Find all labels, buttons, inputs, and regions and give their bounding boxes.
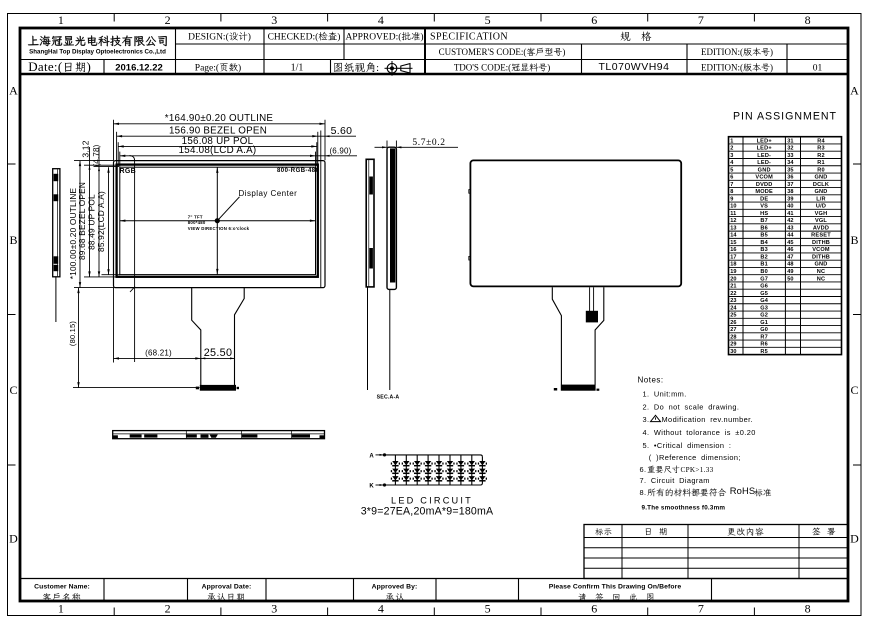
svg-text:3*9=27EA,20mA*9=180mA: 3*9=27EA,20mA*9=180mA <box>361 506 494 518</box>
svg-text:CHECKED:(: CHECKED:( <box>268 32 319 43</box>
svg-text:5. •Critical dimension :: 5. •Critical dimension : <box>643 441 732 450</box>
svg-text:48: 48 <box>787 262 793 268</box>
section A-A strip <box>387 147 396 289</box>
svg-text:11: 11 <box>730 211 736 217</box>
front FPC tail right edge <box>235 288 245 386</box>
svg-text:3.: 3. <box>643 415 650 424</box>
svg-text:LED+: LED+ <box>757 146 773 152</box>
LED string branch 5 wire <box>438 455 440 485</box>
svg-text:6: 6 <box>591 602 597 616</box>
svg-text:38: 38 <box>787 189 793 195</box>
svg-text:Approval Date:: Approval Date: <box>202 583 252 590</box>
svg-text:VGL: VGL <box>815 218 827 224</box>
svg-text:88.49 UP POL: 88.49 UP POL <box>87 194 97 250</box>
svg-text:): ) <box>86 59 90 74</box>
svg-text:(4.78): (4.78) <box>92 144 101 166</box>
svg-text:EDITION:(: EDITION:( <box>701 63 743 73</box>
svg-text:37: 37 <box>787 182 793 188</box>
front FPC tail left edge <box>192 288 201 386</box>
dimension 25.50 <box>201 357 235 359</box>
LED D11 <box>392 461 398 465</box>
rear FPC component <box>586 311 598 323</box>
svg-text:6: 6 <box>591 13 597 27</box>
LED D93 <box>479 476 485 480</box>
svg-text:): ) <box>337 32 340 43</box>
svg-text:01: 01 <box>813 64 823 74</box>
svg-text:47: 47 <box>787 254 793 260</box>
svg-text:(80.15): (80.15) <box>68 321 77 346</box>
dimension 5.7 <box>375 146 388 148</box>
svg-text:C: C <box>850 383 858 397</box>
svg-text:A: A <box>369 453 374 459</box>
svg-text:LED-: LED- <box>757 153 771 159</box>
svg-text:35: 35 <box>787 167 793 173</box>
LED D43 <box>425 476 431 480</box>
svg-text:8.: 8. <box>640 488 647 497</box>
svg-text:G0: G0 <box>760 327 768 333</box>
LED D22 <box>403 469 409 473</box>
svg-text:): ) <box>547 63 550 73</box>
svg-text:20: 20 <box>730 276 736 282</box>
right side view inner line <box>368 160 370 286</box>
section A-A centerline <box>389 289 391 390</box>
svg-text:4: 4 <box>378 602 384 616</box>
svg-text:): ) <box>770 63 773 73</box>
LED D92 <box>479 469 485 473</box>
svg-text:154.08(LCD A.A): 154.08(LCD A.A) <box>179 145 257 156</box>
svg-text:(6.90): (6.90) <box>329 146 351 155</box>
svg-text:40: 40 <box>787 204 793 210</box>
svg-text:5: 5 <box>485 13 491 27</box>
svg-text:16: 16 <box>730 247 736 253</box>
dimension 154.08 LCD A.A <box>120 155 316 157</box>
svg-text:DITHB: DITHB <box>812 240 830 246</box>
svg-text:85.92(LCD A.A): 85.92(LCD A.A) <box>96 191 106 252</box>
dimension (4.78) vertical <box>92 144 101 166</box>
rear view body <box>470 160 681 286</box>
projection angle symbol <box>387 64 397 74</box>
svg-text:5: 5 <box>485 602 491 616</box>
dimension 164.90 OUTLINE <box>114 123 326 125</box>
dimension 156.08 UP POL <box>118 145 317 147</box>
svg-text:DCLK: DCLK <box>813 182 829 188</box>
svg-text:(68.21): (68.21) <box>145 348 172 357</box>
svg-text:DITHB: DITHB <box>812 254 830 260</box>
svg-text:): ) <box>770 47 773 57</box>
svg-text:1: 1 <box>730 138 733 144</box>
svg-text:44: 44 <box>787 233 794 239</box>
LED D51 <box>436 461 442 465</box>
LED D91 <box>479 461 485 465</box>
svg-text:2: 2 <box>165 602 171 616</box>
bottom view ticks <box>185 431 187 439</box>
svg-text:31: 31 <box>787 138 793 144</box>
rear FPC right edge <box>595 287 604 385</box>
svg-text:B5: B5 <box>760 233 768 239</box>
svg-text:G5: G5 <box>760 291 768 297</box>
LED D23 <box>403 476 409 480</box>
cathode arrow <box>376 484 384 486</box>
svg-text:B2: B2 <box>760 254 768 260</box>
svg-text:CPK>1.33: CPK>1.33 <box>681 466 714 474</box>
left side view fpc line <box>55 277 57 322</box>
svg-text:): ) <box>562 47 565 57</box>
svg-text:SEC.A-A: SEC.A-A <box>377 395 400 401</box>
svg-text:26: 26 <box>730 320 736 326</box>
svg-text:G1: G1 <box>760 320 768 326</box>
svg-text:Notes:: Notes: <box>638 376 664 385</box>
rear view left notches <box>469 190 471 194</box>
display center leader <box>218 197 239 220</box>
dimension (80.15) vertical <box>78 288 80 388</box>
svg-text:VCOM: VCOM <box>812 247 830 253</box>
svg-text::: : <box>376 63 379 74</box>
svg-text:GND: GND <box>814 189 827 195</box>
svg-text:41: 41 <box>787 211 793 217</box>
rear FPC left edge <box>552 287 561 385</box>
display center dot <box>215 218 220 223</box>
svg-text:B7: B7 <box>760 218 768 224</box>
LED D62 <box>447 469 453 473</box>
svg-text:R1: R1 <box>817 160 825 166</box>
LED D71 <box>458 461 464 465</box>
svg-text:50: 50 <box>787 276 793 282</box>
extension lines above panel <box>113 120 115 160</box>
LED string branch 1 wire <box>394 455 396 485</box>
cathode terminal dot <box>383 483 386 486</box>
svg-text:GND: GND <box>814 175 827 181</box>
svg-text:RGB: RGB <box>120 168 136 175</box>
svg-text:G4: G4 <box>760 298 769 304</box>
svg-text:L/R: L/R <box>816 196 826 202</box>
svg-text:Please Confirm This Drawing On: Please Confirm This Drawing On/Before <box>549 583 682 590</box>
svg-text:43: 43 <box>787 225 793 231</box>
vertical centerline with arrows <box>216 167 218 274</box>
svg-text:3: 3 <box>730 153 733 159</box>
svg-text:GND: GND <box>758 167 771 173</box>
svg-text:89.68 BEZEL OPEN: 89.68 BEZEL OPEN <box>77 182 87 260</box>
svg-text:36: 36 <box>787 175 793 181</box>
svg-text:3: 3 <box>271 13 277 27</box>
svg-text:6: 6 <box>730 175 733 181</box>
LED D33 <box>414 476 420 480</box>
LED D32 <box>414 469 420 473</box>
bottom strip top line <box>20 578 848 580</box>
pin table row lines <box>729 143 842 145</box>
svg-text:Approved By:: Approved By: <box>372 583 418 590</box>
svg-text:G6: G6 <box>760 284 768 290</box>
frame zone ticks <box>113 14 115 22</box>
svg-text:2: 2 <box>730 146 733 152</box>
svg-text:( )Reference dimension;: ( )Reference dimension; <box>649 453 741 462</box>
svg-text:4: 4 <box>378 13 384 27</box>
svg-text:34: 34 <box>787 160 794 166</box>
LED D42 <box>425 469 431 473</box>
section A-A fill <box>390 148 395 282</box>
svg-text:24: 24 <box>730 305 737 311</box>
svg-text:R2: R2 <box>817 153 825 159</box>
svg-text:7. Circuit Diagram: 7. Circuit Diagram <box>640 476 710 485</box>
svg-text:3.12: 3.12 <box>81 140 91 157</box>
svg-text:13: 13 <box>730 225 736 231</box>
dimension (68.21) <box>114 357 201 359</box>
bottom view components <box>113 435 118 438</box>
svg-text:B6: B6 <box>760 225 768 231</box>
svg-text:5.7±0.2: 5.7±0.2 <box>412 138 445 148</box>
connector bar end ticks <box>196 387 199 390</box>
svg-text:B0: B0 <box>760 269 768 275</box>
front FPC connector bar <box>200 385 236 391</box>
svg-text:ShangHai Top Display Optoelect: ShangHai Top Display Optoelectronics Co.… <box>29 49 166 56</box>
LED string branch 3 wire <box>416 455 418 485</box>
dimension 100.00 OUTLINE vertical <box>79 161 81 288</box>
svg-text:25.50: 25.50 <box>204 347 233 359</box>
svg-text:49: 49 <box>787 269 793 275</box>
LED D63 <box>447 476 453 480</box>
svg-text:MODE: MODE <box>755 189 773 195</box>
pin table column lines <box>742 137 744 355</box>
rear FPC connector bar <box>561 385 596 391</box>
svg-text:APPROVED:(: APPROVED:( <box>345 32 401 43</box>
svg-text:GND: GND <box>814 262 827 268</box>
dimension 3.12 vertical <box>81 140 91 157</box>
svg-text:LED CIRCUIT: LED CIRCUIT <box>391 496 473 506</box>
svg-text:33: 33 <box>787 153 793 159</box>
svg-text:14: 14 <box>730 233 737 239</box>
svg-text:29: 29 <box>730 342 736 348</box>
svg-text:B4: B4 <box>760 240 768 246</box>
svg-text:U/D: U/D <box>816 204 826 210</box>
title block grid <box>20 73 848 75</box>
svg-text:RESET: RESET <box>811 233 831 239</box>
svg-text:800*480: 800*480 <box>188 220 206 225</box>
svg-text:19: 19 <box>730 269 736 275</box>
svg-text:HS: HS <box>760 211 768 217</box>
svg-text:12: 12 <box>730 218 736 224</box>
LED D83 <box>469 476 475 480</box>
front view LCD active area rect <box>120 167 316 274</box>
right extra vertical line <box>320 131 322 288</box>
svg-text:5: 5 <box>730 167 733 173</box>
svg-text:15: 15 <box>730 240 736 246</box>
svg-text:7: 7 <box>698 602 704 616</box>
svg-text:32: 32 <box>787 146 793 152</box>
svg-text:): ) <box>420 32 423 43</box>
svg-text:DE: DE <box>760 196 768 202</box>
svg-text:23: 23 <box>730 298 736 304</box>
svg-text:DESIGN:(: DESIGN:( <box>188 32 229 43</box>
top rail wire <box>385 455 483 457</box>
svg-text:LED+: LED+ <box>757 138 773 144</box>
svg-text:R3: R3 <box>817 146 825 152</box>
LED string branch 4 wire <box>427 455 429 485</box>
horizontal centerline with arrows <box>120 220 316 222</box>
LED string branch 2 wire <box>405 455 407 485</box>
right side view body <box>366 159 374 287</box>
dimension (6.90) <box>316 155 358 157</box>
LED D61 <box>447 461 453 465</box>
svg-text:4. Without tolorance is ±0.20: 4. Without tolorance is ±0.20 <box>643 428 756 437</box>
LED D73 <box>458 476 464 480</box>
front view bezel open rect (thick) <box>117 165 318 277</box>
svg-text:9.The smoothness f0.3mm: 9.The smoothness f0.3mm <box>642 505 726 512</box>
bottom view inner line <box>113 433 324 435</box>
anode arrow <box>376 454 384 456</box>
svg-text:A: A <box>9 83 18 97</box>
svg-text:VS: VS <box>760 204 768 210</box>
svg-text:42: 42 <box>787 218 793 224</box>
svg-text:R0: R0 <box>817 167 825 173</box>
svg-text:C: C <box>9 383 17 397</box>
svg-text:B3: B3 <box>760 247 768 253</box>
dimension 156.90 BEZEL OPEN <box>117 135 318 137</box>
svg-text:TDO'S CODE:(: TDO'S CODE:( <box>454 63 511 73</box>
polarizer tab hook bottom <box>130 287 135 292</box>
svg-text:7" TFT: 7" TFT <box>188 215 203 220</box>
svg-text:VIEW DIRECTION 6:o'clock: VIEW DIRECTION 6:o'clock <box>188 226 250 231</box>
LED D82 <box>469 469 475 473</box>
svg-text:8: 8 <box>805 13 811 27</box>
LED D41 <box>425 461 431 465</box>
bottom rail wire <box>385 483 483 485</box>
svg-text:SPECIFICATION: SPECIFICATION <box>430 32 508 43</box>
svg-text:1: 1 <box>58 602 64 616</box>
company name chinese <box>28 36 39 45</box>
svg-text:D: D <box>850 532 859 546</box>
view angle label <box>334 63 342 72</box>
svg-text:1/1: 1/1 <box>291 63 304 74</box>
svg-text:PIN ASSIGNMENT: PIN ASSIGNMENT <box>733 111 837 123</box>
LED D81 <box>469 461 475 465</box>
svg-text:R7: R7 <box>760 334 768 340</box>
dimension 5.60 <box>318 135 356 137</box>
LED D12 <box>392 469 398 473</box>
LED D52 <box>436 469 442 473</box>
svg-text:800-RGB-480: 800-RGB-480 <box>277 168 320 174</box>
svg-text:B: B <box>850 233 858 247</box>
svg-text:R5: R5 <box>760 349 768 355</box>
svg-text:2016.12.22: 2016.12.22 <box>115 63 163 74</box>
rear connector end marks <box>554 388 557 391</box>
extension line panel left down <box>113 288 115 363</box>
svg-text:39: 39 <box>787 196 793 202</box>
svg-text:K: K <box>369 483 374 489</box>
svg-text:LED-: LED- <box>757 160 771 166</box>
svg-text:156.90 BEZEL OPEN: 156.90 BEZEL OPEN <box>169 125 267 136</box>
svg-text:Customer Name:: Customer Name: <box>34 583 90 590</box>
svg-text:VGH: VGH <box>815 211 828 217</box>
svg-text:5.60: 5.60 <box>331 125 353 137</box>
right side view fpc line <box>367 287 369 390</box>
revision header marks <box>595 528 603 535</box>
svg-text:*164.90±0.20 OUTLINE: *164.90±0.20 OUTLINE <box>165 113 274 124</box>
svg-text:46: 46 <box>787 247 793 253</box>
svg-text:7: 7 <box>730 182 733 188</box>
LED D53 <box>436 476 442 480</box>
left extension lines <box>74 160 114 162</box>
svg-text:AVDD: AVDD <box>813 225 829 231</box>
dimension 85.92 LCD A.A vertical <box>108 167 110 275</box>
svg-text:6.: 6. <box>640 465 647 474</box>
svg-text:17: 17 <box>730 254 736 260</box>
svg-text:NC: NC <box>817 276 825 282</box>
LED string branch 7 wire <box>460 455 462 485</box>
svg-text:22: 22 <box>730 291 736 297</box>
LED D31 <box>414 461 420 465</box>
svg-text:Display Center: Display Center <box>239 189 298 198</box>
svg-text:Modification rev.number.: Modification rev.number. <box>662 415 754 424</box>
svg-text:1: 1 <box>58 13 64 27</box>
svg-text:Page:(: Page:( <box>195 63 219 74</box>
svg-text:30: 30 <box>730 349 736 355</box>
svg-text:8: 8 <box>805 602 811 616</box>
right side view tape marks <box>369 177 373 195</box>
dimension 89.68 BEZEL OPEN vertical <box>89 147 91 277</box>
svg-text:B: B <box>9 233 17 247</box>
svg-text:G3: G3 <box>760 305 768 311</box>
svg-text:10: 10 <box>730 204 736 210</box>
polarizer tab line left <box>130 156 135 362</box>
svg-text:21: 21 <box>730 284 736 290</box>
svg-text:2: 2 <box>165 13 171 27</box>
svg-text:R6: R6 <box>760 342 768 348</box>
svg-text:8: 8 <box>730 189 733 195</box>
svg-text:R4: R4 <box>817 138 825 144</box>
revision table <box>584 525 848 579</box>
anode terminal dot <box>383 453 386 456</box>
svg-text:EDITION:(: EDITION:( <box>701 47 743 57</box>
svg-text:7: 7 <box>698 13 704 27</box>
bottom view strip <box>113 431 325 439</box>
svg-text:25: 25 <box>730 313 736 319</box>
svg-text:): ) <box>238 63 241 74</box>
svg-text:NC: NC <box>817 269 825 275</box>
LED string branch 8 wire <box>471 455 473 485</box>
svg-text:G7: G7 <box>760 276 768 282</box>
extension line fpc bottom <box>73 387 200 389</box>
LED D13 <box>392 476 398 480</box>
svg-text:TL070WVH94: TL070WVH94 <box>599 61 670 73</box>
svg-text:): ) <box>248 32 251 43</box>
LED D21 <box>403 461 409 465</box>
left side view inner line <box>57 169 59 276</box>
dimension 88.49 UP POL vertical <box>98 147 100 277</box>
svg-text:9: 9 <box>730 196 733 202</box>
svg-text:G2: G2 <box>760 313 768 319</box>
LED D72 <box>458 469 464 473</box>
svg-text:45: 45 <box>787 240 793 246</box>
svg-text:1. Unit:mm.: 1. Unit:mm. <box>643 389 687 398</box>
svg-text:D: D <box>9 532 18 546</box>
rear FPC wires <box>589 287 591 311</box>
svg-text:27: 27 <box>730 327 736 333</box>
svg-text:2. Do not scale drawing.: 2. Do not scale drawing. <box>643 402 740 411</box>
svg-text:A: A <box>850 83 859 97</box>
svg-text:CUSTOMER'S CODE:(: CUSTOMER'S CODE:( <box>439 47 527 57</box>
svg-text:Date:(: Date:( <box>28 59 62 74</box>
left side view tape marks <box>54 174 59 181</box>
svg-text:B1: B1 <box>760 262 768 268</box>
pin table outer border <box>729 137 842 355</box>
svg-text:3: 3 <box>271 602 277 616</box>
svg-text:DVDD: DVDD <box>756 182 773 188</box>
LED string branch 6 wire <box>449 455 451 485</box>
left side view body <box>53 169 60 277</box>
svg-text:18: 18 <box>730 262 736 268</box>
svg-text:VCOM: VCOM <box>755 175 773 181</box>
svg-text:RoHS: RoHS <box>730 485 755 496</box>
front view outline rect 164.90x100.00 <box>114 161 326 288</box>
